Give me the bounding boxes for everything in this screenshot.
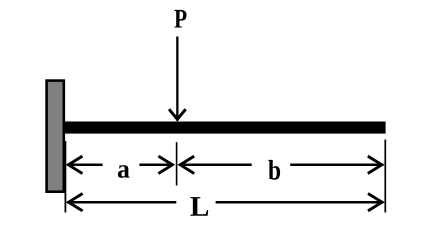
dimension L: right shaft [216,201,384,204]
dimension b: left arrowhead [180,156,194,173]
dimension b: right arrowhead [368,156,382,173]
dimension a: right arrowhead [158,156,172,173]
label P [174,10,186,28]
tick middle (under load) [176,142,178,185]
label L [190,197,208,216]
dimension L: left shaft [67,201,176,204]
dimension L: left arrowhead [69,194,83,211]
wall (fixed support) [47,81,64,192]
load arrow P shaft [176,37,178,121]
label b [268,160,280,180]
dimension a: right shaft [139,164,173,167]
load arrow P head [169,109,186,119]
label a [118,165,130,178]
dimension a: left shaft [67,164,103,167]
dimension b: left shaft [179,164,252,167]
tick left (at wall face) [64,141,66,213]
tick right (beam end) [384,140,386,213]
dimension a: left arrowhead [68,156,82,173]
beam [65,122,386,134]
dimension L: right arrowhead [368,194,382,211]
dimension b: right shaft [290,164,383,167]
